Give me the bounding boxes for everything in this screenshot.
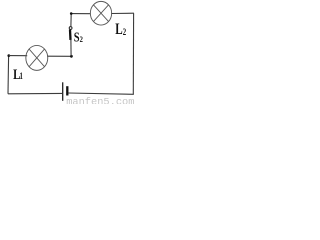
svg-text:manfen5.com: manfen5.com [66,97,134,105]
